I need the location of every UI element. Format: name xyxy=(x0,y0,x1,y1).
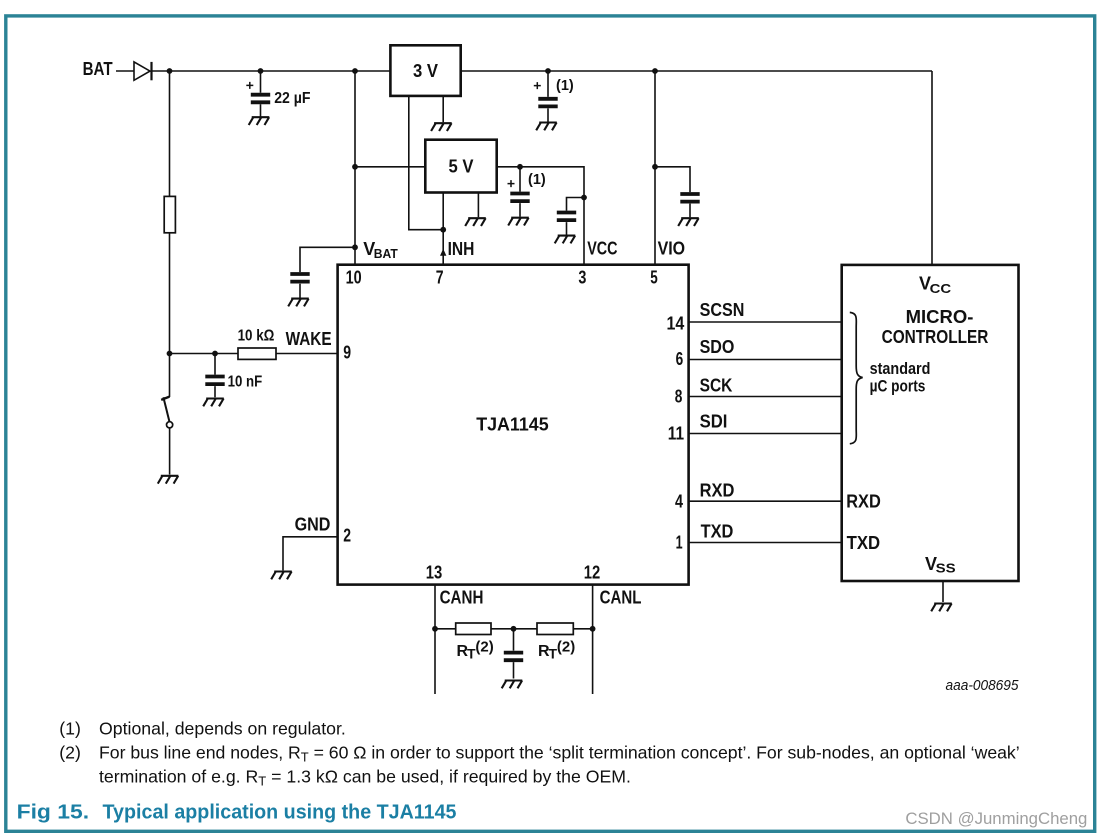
wire SCSN xyxy=(689,321,842,323)
svg-text:(2): (2) xyxy=(475,638,493,655)
wire microcontroller VSS ground lead xyxy=(942,581,944,602)
svg-text:µC ports: µC ports xyxy=(870,377,926,396)
node split termination center xyxy=(511,626,517,632)
svg-text:10 kΩ: 10 kΩ xyxy=(238,327,275,344)
svg-text:MICRO-: MICRO- xyxy=(906,307,974,327)
arrow INH (points up) xyxy=(440,249,446,256)
svg-text:13: 13 xyxy=(426,563,443,583)
node CANL termination tap xyxy=(590,626,596,632)
svg-text:VCC: VCC xyxy=(587,239,617,259)
node 5V input tap xyxy=(352,164,358,170)
svg-text:11: 11 xyxy=(668,424,684,444)
svg-text:CC: CC xyxy=(930,281,952,296)
wire top rail right of 3V xyxy=(461,70,932,72)
wire RXD xyxy=(689,500,842,502)
svg-text:CANH: CANH xyxy=(440,588,484,608)
ground under top optional cap xyxy=(536,123,557,131)
node CANH termination tap xyxy=(432,626,438,632)
node diode-cathode junction xyxy=(167,68,173,74)
svg-text:CSDN @JunmingCheng: CSDN @JunmingCheng xyxy=(905,810,1087,828)
node INH junction xyxy=(440,227,446,233)
ground under 22uF xyxy=(249,117,270,125)
wire left vertical above resistor xyxy=(169,71,171,197)
ground under microcontroller xyxy=(931,604,952,612)
svg-text:6: 6 xyxy=(676,349,684,369)
wire top rail left of 3V xyxy=(152,70,390,72)
wire CANL line xyxy=(592,585,594,694)
wire 5V ground lead xyxy=(477,193,479,218)
svg-text:4: 4 xyxy=(675,492,683,512)
wire VIO decoupling branch xyxy=(655,167,690,217)
svg-text:Optional, depends on regulator: Optional, depends on regulator. xyxy=(99,718,346,738)
svg-text:(1): (1) xyxy=(556,78,574,94)
capacitor 10 nF xyxy=(205,377,224,385)
svg-text:termination of e.g. RT = 1.3 k: termination of e.g. RT = 1.3 kΩ can be u… xyxy=(99,766,631,788)
svg-text:SDO: SDO xyxy=(700,337,735,357)
ground under 5V regulator xyxy=(465,218,486,226)
svg-text:Fig 15.: Fig 15. xyxy=(17,801,90,824)
svg-text:(2): (2) xyxy=(59,742,81,762)
wire SCK xyxy=(689,396,842,398)
diode D1 xyxy=(134,62,152,80)
capacitor C1 optional (top) xyxy=(538,99,557,107)
svg-text:SCSN: SCSN xyxy=(700,300,745,320)
capacitor 22uF xyxy=(251,95,270,103)
svg-text:9: 9 xyxy=(343,342,351,362)
wire 10nF leads xyxy=(214,354,216,398)
wire INH net vertical xyxy=(442,193,444,265)
wire 5V output cap leads xyxy=(519,167,521,217)
wire split cap leads xyxy=(513,629,515,679)
capacitor VBAT decoupling xyxy=(290,274,309,282)
svg-text:14: 14 xyxy=(667,313,685,333)
svg-text:RXD: RXD xyxy=(846,492,881,512)
svg-text:5 V: 5 V xyxy=(449,157,474,177)
svg-text:Typical application using the: Typical application using the TJA1145 xyxy=(103,801,457,824)
microcontroller box xyxy=(842,265,1019,581)
3V regulator box xyxy=(390,45,460,96)
svg-text:GND: GND xyxy=(295,515,331,535)
capacitor split termination xyxy=(504,653,523,661)
wire VBAT vertical x355 xyxy=(354,71,356,265)
wire 22uF leads xyxy=(260,71,262,117)
wire left vertical below resistor xyxy=(169,233,171,397)
svg-text:5: 5 xyxy=(650,267,658,287)
ground under 5V output cap xyxy=(508,218,529,226)
node WAKE switch tap xyxy=(167,351,173,357)
wire SDO xyxy=(689,359,842,361)
svg-text:3: 3 xyxy=(578,267,586,287)
ground under switch xyxy=(158,476,179,484)
svg-text:VIO: VIO xyxy=(658,239,686,259)
capacitor C2 optional (5V output) xyxy=(510,194,529,202)
svg-text:SCK: SCK xyxy=(700,375,733,395)
svg-text:3 V: 3 V xyxy=(413,61,438,81)
wire TXD xyxy=(689,542,842,544)
ground under split cap xyxy=(502,681,523,689)
node VIO branch tap xyxy=(652,164,658,170)
wire 3V enable lead xyxy=(409,96,443,230)
ground under VCC cap xyxy=(555,236,576,244)
wire below switch xyxy=(169,428,171,475)
5V regulator box xyxy=(425,140,496,193)
resistor (left pull-up) xyxy=(164,196,175,232)
ground under VBAT cap xyxy=(288,299,309,307)
svg-text:TJA1145: TJA1145 xyxy=(476,414,549,435)
svg-text:22 µF: 22 µF xyxy=(274,90,310,107)
node VCC cap tap xyxy=(581,195,587,201)
node 22uF tap xyxy=(258,68,264,74)
svg-text:TXD: TXD xyxy=(701,522,734,542)
IC TJA1145 box xyxy=(338,265,689,585)
svg-text:standard: standard xyxy=(870,359,931,378)
wire WAKE right segment xyxy=(276,353,338,355)
node VBAT rail tap xyxy=(352,68,358,74)
brace standard uC ports xyxy=(850,312,863,443)
node top cap tap xyxy=(545,68,551,74)
node 10nF tap xyxy=(212,351,218,357)
svg-text:1: 1 xyxy=(676,532,683,552)
svg-text:(2): (2) xyxy=(557,638,575,655)
svg-text:10 nF: 10 nF xyxy=(228,374,263,391)
wire termination segments xyxy=(435,628,593,630)
wire VCC decoupling branch xyxy=(567,198,585,235)
svg-text:(1): (1) xyxy=(59,718,81,738)
wire VIO vertical x655 xyxy=(654,71,656,265)
wire BAT lead xyxy=(116,70,134,72)
svg-text:CANL: CANL xyxy=(600,588,642,608)
svg-text:8: 8 xyxy=(675,386,683,406)
wire drop to microcontroller VCC xyxy=(931,71,933,266)
node VIO rail tap xyxy=(652,68,658,74)
svg-text:7: 7 xyxy=(436,267,444,287)
svg-text:(1): (1) xyxy=(528,172,546,188)
svg-text:10: 10 xyxy=(346,268,362,288)
termination resistor RT2 xyxy=(537,623,573,635)
termination resistor RT1 xyxy=(456,623,491,635)
wire 3V ground lead xyxy=(442,96,444,123)
svg-text:For bus line end nodes, RT = 6: For bus line end nodes, RT = 60 Ω in ord… xyxy=(99,742,1020,764)
svg-text:INH: INH xyxy=(448,239,475,259)
node 5V output cap tap xyxy=(517,164,523,170)
wire CANH line xyxy=(434,585,436,694)
ground at GND pin xyxy=(271,572,292,580)
ground under VIO cap xyxy=(678,218,699,226)
svg-text:BAT: BAT xyxy=(374,247,398,261)
svg-text:BAT: BAT xyxy=(83,59,113,79)
svg-text:CONTROLLER: CONTROLLER xyxy=(882,327,989,347)
wire 5V output to VCC pin xyxy=(497,167,584,265)
wire 5V input xyxy=(355,166,425,168)
node VBAT cap tap xyxy=(352,244,358,250)
capacitor VIO decoupling xyxy=(680,194,699,202)
svg-text:2: 2 xyxy=(343,526,351,546)
svg-text:12: 12 xyxy=(584,563,601,583)
svg-text:TXD: TXD xyxy=(847,533,881,553)
wire VBAT decoupling branch xyxy=(300,247,355,297)
wire GND pin branch xyxy=(283,537,338,571)
svg-text:SDI: SDI xyxy=(700,411,728,431)
svg-text:SS: SS xyxy=(936,561,956,576)
wire SDI xyxy=(689,433,842,435)
ground under 3V regulator xyxy=(431,123,452,131)
svg-text:aaa-008695: aaa-008695 xyxy=(946,677,1020,694)
capacitor VCC decoupling xyxy=(557,213,576,221)
wire WAKE left segment xyxy=(170,353,239,355)
ground under 10nF xyxy=(203,399,224,407)
svg-text:WAKE: WAKE xyxy=(286,329,332,349)
resistor 10 kOhm xyxy=(238,348,276,359)
switch S1 xyxy=(161,397,173,428)
svg-text:RXD: RXD xyxy=(700,481,735,501)
wire 22uF top cap leads xyxy=(547,71,549,122)
